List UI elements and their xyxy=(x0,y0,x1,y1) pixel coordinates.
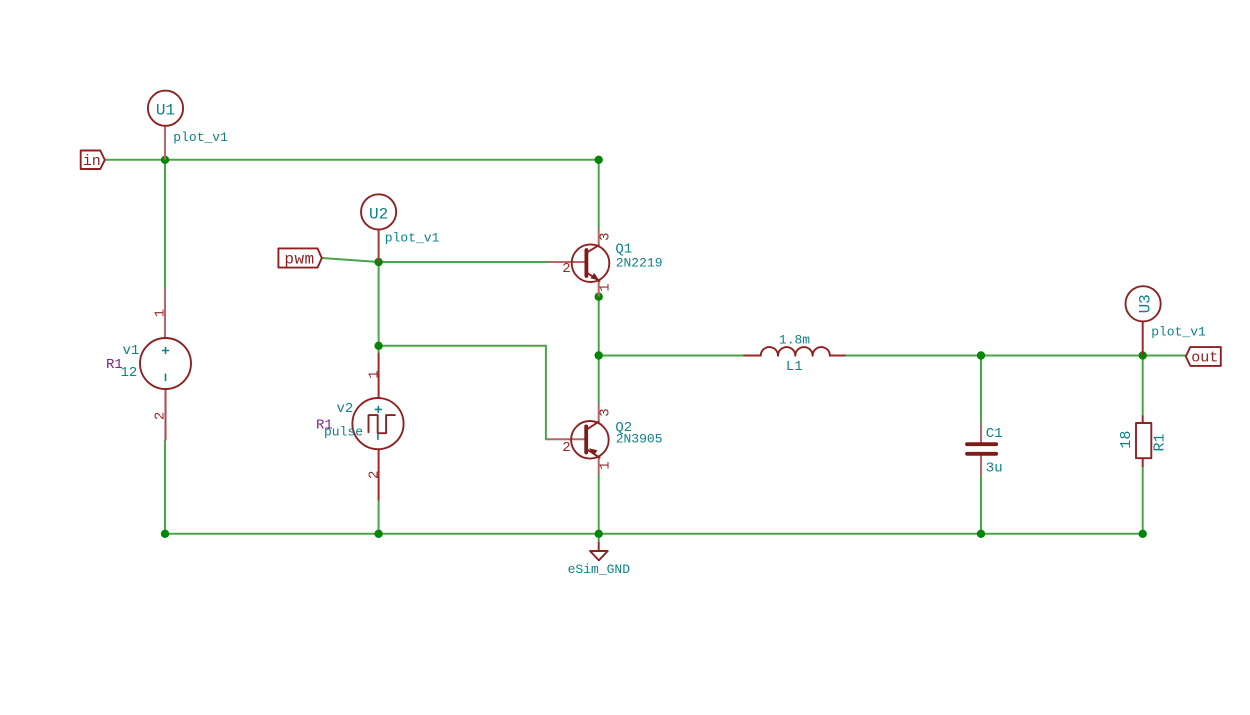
label plot_v1 of U2 xyxy=(385,230,440,245)
wire: v2 junction right toward Q2 base xyxy=(379,346,549,440)
label plot_v1 of U1 xyxy=(173,130,228,145)
node: junction rail at v1 xyxy=(161,530,169,538)
wire: bottom ground rail xyxy=(165,533,1143,535)
svg-text:U3: U3 xyxy=(1136,294,1154,313)
label R1 (purple, near v1) xyxy=(106,357,123,373)
svg-text:1: 1 xyxy=(366,370,382,378)
wire: v1 top branch vertical xyxy=(164,160,166,288)
label v1 xyxy=(123,343,140,359)
node: junction v2 top xyxy=(374,342,382,350)
hierarchical label out xyxy=(1186,347,1221,366)
wire: C1 bottom branch xyxy=(980,475,982,533)
node: junction rail at v2 xyxy=(374,530,382,538)
svg-text:R1: R1 xyxy=(1152,433,1169,451)
wire: C1 top branch xyxy=(980,356,982,424)
wire: U2 junction down to v2 junction xyxy=(378,262,380,353)
wire: v2 bottom to ground rail xyxy=(378,500,380,533)
node: junction rail at ground xyxy=(595,530,603,538)
svg-text:eSim_GND: eSim_GND xyxy=(568,562,631,577)
node: junction pwm/U2 xyxy=(374,258,382,266)
pin number 1 of v2 xyxy=(366,370,382,378)
label R1 (purple, near v2) xyxy=(316,417,333,433)
node: junction Q1 emitter xyxy=(595,293,603,301)
svg-text:plot_v1: plot_v1 xyxy=(1151,325,1206,340)
hierarchical label in xyxy=(81,151,105,171)
svg-text:in: in xyxy=(83,153,101,170)
wire: Q1 collector drop from top net xyxy=(598,160,600,229)
svg-text:2: 2 xyxy=(366,471,382,479)
svg-text:v2: v2 xyxy=(337,401,354,417)
svg-text:C1: C1 xyxy=(986,426,1003,442)
svg-text:pulse: pulse xyxy=(324,424,363,439)
wire: pwm junction to Q1 base xyxy=(379,261,549,263)
svg-text:plot_v1: plot_v1 xyxy=(385,230,440,245)
pin number 2 of Q2 xyxy=(562,440,570,456)
svg-text:U1: U1 xyxy=(156,102,175,120)
svg-text:out: out xyxy=(1191,349,1218,366)
svg-text:18: 18 xyxy=(1118,431,1135,449)
wire: out net right of L1 xyxy=(846,355,1143,357)
wire: Q2 collector from out junction xyxy=(598,356,600,404)
wire: Q1 emitter to out junction xyxy=(598,297,600,356)
wire: out junction to out flag xyxy=(1143,355,1186,357)
wire: v1 bottom to ground rail xyxy=(164,440,166,533)
pin number 1 of Q2 xyxy=(598,461,614,469)
svg-text:2N3905: 2N3905 xyxy=(616,432,663,447)
node: junction out at R1 xyxy=(1139,351,1147,359)
ground eSim_GND xyxy=(590,542,608,560)
pin number 2 of v2 xyxy=(366,471,382,479)
svg-text:2N2219: 2N2219 xyxy=(616,256,663,271)
capacitor C1 xyxy=(967,424,996,476)
label Q1 xyxy=(615,241,632,257)
pulse source v2 xyxy=(352,353,403,501)
value 1.8m of L1 xyxy=(779,333,810,348)
node: junction rail at C1 xyxy=(977,530,985,538)
wire: R1 top branch xyxy=(1142,356,1144,416)
transistor Q1 (2N2219 NPN) xyxy=(548,229,609,297)
pin number 3 of Q2 xyxy=(598,408,614,416)
node: junction top-right corner xyxy=(595,156,603,164)
svg-text:12: 12 xyxy=(121,365,138,381)
label R1 (resistor) xyxy=(1152,433,1169,451)
label eSim_GND xyxy=(568,562,631,577)
value pulse of v2 xyxy=(324,424,363,439)
wire: out net left of L1 xyxy=(599,355,744,357)
node: junction rail at R1 xyxy=(1139,530,1147,538)
wire: ground stub xyxy=(598,534,600,542)
pin number 1 of v1 xyxy=(153,309,169,317)
probe U3 xyxy=(1126,286,1161,355)
value 3u of C1 xyxy=(986,461,1003,477)
svg-text:2: 2 xyxy=(153,412,169,420)
label L1 xyxy=(786,359,803,375)
value 2N3905 xyxy=(616,432,663,447)
svg-text:plot_v1: plot_v1 xyxy=(173,130,228,145)
svg-text:3: 3 xyxy=(598,408,614,416)
svg-text:1: 1 xyxy=(598,461,614,469)
wire: Q2 emitter to ground rail xyxy=(598,475,600,534)
inductor L1 xyxy=(743,347,846,356)
transistor Q2 (2N3905 PNP) xyxy=(548,403,608,474)
svg-text:L1: L1 xyxy=(786,359,803,375)
svg-text:3: 3 xyxy=(598,232,614,240)
pin number 2 of Q1 xyxy=(562,261,570,277)
wire: top net 'in' horizontal xyxy=(105,159,599,161)
probe U1 xyxy=(148,91,183,160)
pin number 2 of v1 xyxy=(153,412,169,420)
wire: R1 bottom branch xyxy=(1142,467,1144,534)
svg-text:pwm: pwm xyxy=(284,250,314,268)
svg-text:1: 1 xyxy=(153,309,169,317)
label Q2 xyxy=(615,420,632,436)
value 12 of v1 xyxy=(121,365,138,381)
pin number 1 of Q1 xyxy=(598,283,614,291)
pin number 3 of Q1 xyxy=(598,232,614,240)
svg-text:3u: 3u xyxy=(986,461,1003,477)
wire: pwm flag to junction (slight diagonal) xyxy=(322,258,379,262)
label v2 xyxy=(337,401,354,417)
node: junction in/U1/v1 xyxy=(161,156,169,164)
probe U2 xyxy=(361,194,396,262)
svg-text:2: 2 xyxy=(562,261,570,277)
svg-text:1: 1 xyxy=(598,283,614,291)
value 18 of R1 xyxy=(1118,431,1135,449)
svg-text:2: 2 xyxy=(562,440,570,456)
hierarchical label pwm xyxy=(278,248,321,268)
value 2N2219 xyxy=(616,256,663,271)
label plot_v1 of U3 xyxy=(1151,325,1206,340)
svg-text:1.8m: 1.8m xyxy=(779,333,810,348)
node: junction out at C1 xyxy=(977,351,985,359)
node: junction out at Q2 xyxy=(595,351,603,359)
label C1 xyxy=(986,426,1003,442)
svg-text:U2: U2 xyxy=(369,205,388,223)
svg-text:v1: v1 xyxy=(123,343,140,359)
resistor R1 xyxy=(1136,416,1151,468)
voltage source v1 xyxy=(140,288,191,440)
